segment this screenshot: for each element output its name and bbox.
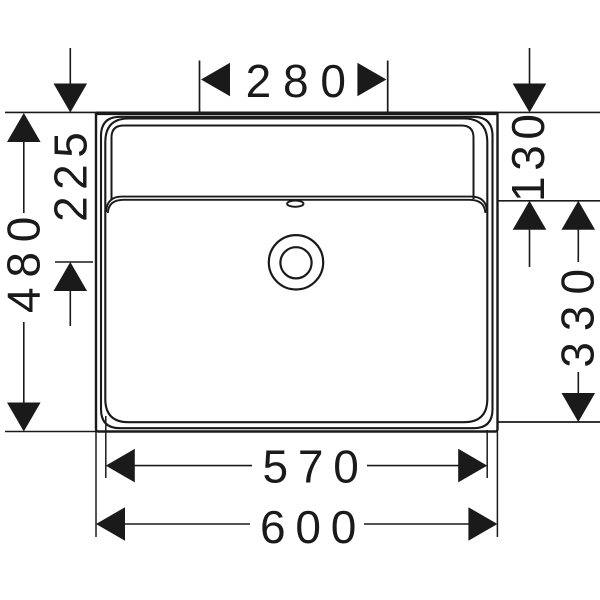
svg-text:570: 570 (263, 441, 369, 493)
svg-text:480: 480 (0, 207, 50, 313)
basin rim inner line B (105, 119, 487, 423)
overflow slot oval (287, 201, 303, 207)
dim 280 arrow left (201, 63, 230, 97)
dim 280 arrow right (357, 63, 386, 97)
basin top edge thick (96, 112, 498, 116)
dim 570 line left segment (130, 465, 252, 467)
basin outer contour (96, 113, 498, 432)
svg-text:130: 130 (502, 108, 554, 202)
dim 570 arrow left (106, 449, 135, 483)
dim 330 bottom arrow (down) (577, 372, 579, 396)
dim 480 top arrow (up) (7, 113, 41, 142)
dim 570 line right segment (367, 465, 462, 467)
dim 570 arrow right (458, 449, 487, 483)
drain outer circle (269, 235, 323, 289)
dim 600 arrow right (468, 507, 497, 541)
dim 600 extension line right (496, 432, 498, 538)
bowl divider lower line (108, 200, 486, 213)
bowl divider upper line (106, 197, 487, 212)
dim 600 arrow left (96, 507, 125, 541)
basin rim inner line A (101, 117, 493, 428)
dim 570 extension line right (486, 430, 488, 478)
drain center tick line (55, 261, 93, 263)
top extension line full width (5, 111, 600, 113)
deck inner contour C (112, 126, 474, 200)
dim 130 top arrow (down) (529, 48, 531, 86)
svg-text:280: 280 (246, 55, 358, 107)
svg-text:330: 330 (552, 258, 600, 368)
dim 600 extension line left (95, 432, 97, 538)
svg-text:600: 600 (260, 501, 366, 553)
dim 480 bottom arrow (down) (23, 322, 25, 404)
dim 225 top arrow (down) (69, 48, 71, 86)
dim 280 extension line left (199, 61, 201, 114)
dim 330 top arrow (up) (562, 201, 596, 230)
drain inner circle (280, 247, 311, 278)
dim 600 line right segment (364, 523, 472, 525)
bottom extension line left (5, 431, 96, 433)
dim 280 extension line right (387, 61, 389, 114)
dim 600 line left segment (120, 523, 250, 525)
divider extension line right (498, 200, 600, 202)
dim 570 extension line left (105, 416, 107, 478)
dim 130 bottom arrow (up) (513, 201, 547, 230)
dim 225 bottom arrow (up) (54, 262, 88, 291)
svg-text:225: 225 (45, 126, 97, 222)
bowl bottom extension line right (498, 421, 600, 423)
